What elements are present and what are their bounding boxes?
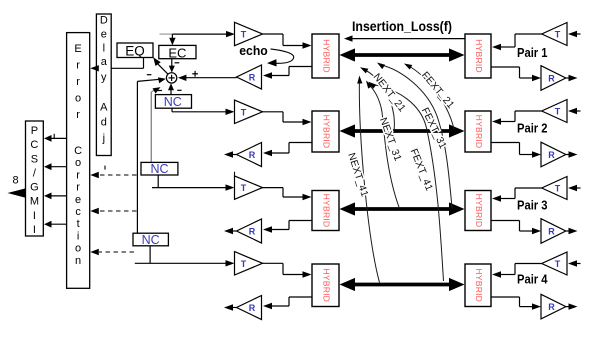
curve NEXT_41 bbox=[357, 76, 379, 283]
block PCS/GMII bbox=[26, 121, 44, 236]
svg-text:HYBRID: HYBRID bbox=[474, 268, 484, 302]
svg-text:r: r bbox=[76, 60, 80, 72]
svg-text:T: T bbox=[555, 259, 561, 269]
wire hybrid left to R1 bbox=[263, 67, 312, 79]
dashed wire NC2 to Error Correction bbox=[90, 166, 136, 179]
wire EQ output to Error Correction bbox=[96, 58, 144, 69]
svg-text:EC: EC bbox=[168, 45, 186, 60]
wire to T2 bbox=[172, 109, 235, 115]
block EQ bbox=[117, 43, 153, 59]
svg-text:T: T bbox=[555, 107, 561, 117]
minus sign NC1 right bbox=[177, 89, 181, 91]
curve FEXT_41 bbox=[369, 82, 444, 281]
svg-text:Pair 2: Pair 2 bbox=[517, 122, 548, 136]
svg-text:o: o bbox=[75, 157, 81, 169]
wire echo loop bbox=[267, 49, 294, 67]
svg-text:R: R bbox=[249, 150, 256, 160]
svg-text:HYBRID: HYBRID bbox=[322, 115, 332, 149]
wire T3 to hybrid left bbox=[263, 188, 312, 201]
svg-text:R: R bbox=[249, 73, 256, 83]
svg-text:Pair 1: Pair 1 bbox=[517, 46, 548, 60]
wire channel pair 4 (thick) bbox=[340, 278, 465, 291]
svg-text:C: C bbox=[30, 139, 38, 151]
svg-text:Pair 4: Pair 4 bbox=[517, 273, 548, 287]
label Insertion_Loss(f) bbox=[352, 19, 452, 34]
svg-text:R: R bbox=[548, 227, 555, 237]
wire hybrid right to R3 bbox=[491, 221, 541, 235]
minus sign NC1 left bbox=[158, 90, 162, 92]
label echo bbox=[239, 43, 268, 58]
svg-text:T: T bbox=[241, 30, 247, 40]
svg-text:T: T bbox=[555, 30, 561, 40]
svg-text:NC: NC bbox=[164, 95, 182, 109]
wire R2 output bbox=[224, 151, 237, 157]
wire summing junction to EQ bbox=[153, 57, 168, 74]
wire R2 right output bbox=[566, 151, 578, 157]
wire T2 right to hybrid bbox=[492, 111, 542, 125]
block Delay Adj bbox=[96, 14, 111, 156]
svg-text:r: r bbox=[76, 76, 80, 88]
wire ErrorCorrection to PCS 3 bbox=[44, 193, 67, 200]
wire R4 output bbox=[224, 304, 237, 310]
svg-text:HYBRID: HYBRID bbox=[322, 39, 332, 73]
block NC3 bbox=[133, 233, 168, 247]
label NEXT_31 bbox=[377, 116, 403, 163]
hybrid H2 right bbox=[465, 111, 491, 152]
wire line B to summing junction bbox=[151, 87, 160, 93]
wire T2 right input bbox=[568, 108, 581, 114]
svg-text:C: C bbox=[74, 145, 82, 157]
wire ErrorCorrection to PCS 1 bbox=[44, 134, 67, 142]
svg-text:Insertion_Loss(f): Insertion_Loss(f) bbox=[352, 19, 452, 34]
label FEXT_41 bbox=[408, 147, 435, 192]
wire T4 to hybrid left bbox=[263, 263, 312, 277]
wire T1 to hybrid left bbox=[263, 34, 312, 49]
svg-text:R: R bbox=[548, 302, 555, 312]
wire to T3 bbox=[152, 184, 235, 190]
wire NC1 tap bbox=[171, 108, 173, 112]
svg-text:j: j bbox=[102, 133, 105, 145]
amplifier T1 (right) bbox=[542, 23, 567, 46]
wire R1 right output bbox=[566, 75, 578, 81]
wire hybrid right to R1 bbox=[491, 67, 541, 81]
hybrid H1 right bbox=[465, 34, 491, 78]
svg-text:HYBRID: HYBRID bbox=[322, 268, 332, 302]
wire hybrid right to R2 bbox=[491, 143, 541, 158]
svg-text:n: n bbox=[75, 255, 81, 267]
label Pair 4 bbox=[517, 273, 548, 287]
dashed wire NC3 to Error Correction bbox=[90, 249, 134, 255]
svg-text:R: R bbox=[249, 227, 256, 237]
svg-text:T: T bbox=[555, 184, 561, 194]
amplifier T2 (left) bbox=[235, 100, 263, 123]
wire channel pair 3 (thick) bbox=[340, 202, 465, 215]
svg-text:R: R bbox=[249, 303, 256, 313]
svg-text:D: D bbox=[100, 14, 108, 26]
wire T1 right to hybrid bbox=[492, 34, 542, 50]
wire hybrid left to R3 bbox=[263, 221, 312, 233]
svg-text:NC: NC bbox=[150, 162, 168, 176]
amplifier T3 (left) bbox=[235, 176, 263, 199]
svg-text:EQ: EQ bbox=[125, 44, 145, 59]
curve NEXT_31 bbox=[366, 81, 400, 209]
svg-text:R: R bbox=[548, 74, 555, 84]
svg-text:o: o bbox=[75, 93, 81, 105]
svg-text:o: o bbox=[75, 243, 81, 255]
dashed wire to Error Correction 2 bbox=[90, 208, 136, 214]
svg-text:r: r bbox=[76, 182, 80, 194]
svg-text:t: t bbox=[77, 218, 80, 230]
amplifier R4 (left) bbox=[237, 296, 262, 320]
wire hybrid left to R2 bbox=[263, 143, 312, 157]
curve FEXT_31 bbox=[377, 63, 452, 209]
svg-text:y: y bbox=[101, 72, 107, 84]
svg-text:HYBRID: HYBRID bbox=[474, 194, 484, 228]
wire hybrid right to R4 bbox=[491, 297, 541, 310]
svg-text:E: E bbox=[74, 43, 81, 55]
wire NC3 tap bbox=[149, 246, 151, 263]
curve NEXT_21 bbox=[360, 67, 394, 130]
wire insertion loss bbox=[344, 35, 465, 41]
amplifier R4 (right) bbox=[541, 294, 566, 319]
svg-text:i: i bbox=[77, 230, 79, 242]
hybrid H4 right bbox=[465, 264, 491, 307]
wire R3 right output bbox=[566, 228, 578, 234]
svg-text:G: G bbox=[30, 182, 39, 194]
svg-text:8: 8 bbox=[12, 175, 18, 187]
hybrid H3 left bbox=[312, 191, 339, 231]
hybrid H4 left bbox=[312, 264, 339, 307]
wire T4 right input bbox=[568, 260, 581, 266]
label FEXT_21 bbox=[419, 70, 456, 111]
label NEXT_21 bbox=[371, 72, 408, 115]
svg-text:R: R bbox=[548, 150, 555, 160]
amplifier R3 (right) bbox=[541, 219, 566, 244]
amplifier T2 (right) bbox=[542, 100, 567, 123]
svg-text:HYBRID: HYBRID bbox=[474, 39, 484, 73]
minus sign line A bbox=[147, 74, 152, 76]
label 8 bbox=[12, 175, 18, 187]
amplifier T4 (right) bbox=[542, 252, 567, 275]
svg-text:Pair 3: Pair 3 bbox=[517, 198, 548, 212]
svg-text:r: r bbox=[76, 109, 80, 121]
block NC2 bbox=[141, 162, 178, 176]
label Pair 1 bbox=[517, 46, 548, 60]
bus arrow 8-bit GMII bbox=[8, 188, 27, 198]
wire ErrorCorrection to PCS 4 bbox=[44, 221, 67, 228]
curve FEXT_21 bbox=[404, 64, 454, 130]
wire T3 right to hybrid bbox=[492, 188, 542, 202]
plus sign R1 input bbox=[192, 71, 198, 77]
hybrid H2 left bbox=[312, 111, 339, 152]
amplifier R2 (right) bbox=[541, 142, 566, 167]
svg-text:NC: NC bbox=[142, 233, 160, 247]
hybrid H1 left bbox=[312, 34, 339, 78]
block NC1 bbox=[155, 95, 191, 109]
svg-text:l: l bbox=[103, 42, 105, 54]
svg-text:r: r bbox=[76, 169, 80, 181]
amplifier T4 (left) bbox=[235, 252, 263, 275]
svg-text:M: M bbox=[30, 196, 39, 208]
wire T2 to hybrid left bbox=[263, 112, 312, 125]
svg-text:I: I bbox=[33, 224, 36, 236]
svg-text:c: c bbox=[75, 206, 81, 218]
wire to T4 bbox=[135, 260, 235, 266]
wire hybrid left to R4 bbox=[263, 297, 312, 309]
wire R4 right output bbox=[566, 303, 578, 309]
wire channel pair 1 (thick) bbox=[340, 48, 465, 61]
wire line B vertical bbox=[150, 92, 152, 162]
svg-text:d: d bbox=[101, 117, 107, 129]
svg-text:T: T bbox=[241, 259, 247, 269]
block EC echo canceller bbox=[159, 45, 196, 60]
svg-text:e: e bbox=[75, 194, 81, 206]
block Error Correction bbox=[67, 33, 90, 289]
wire top to T1 and EC bbox=[160, 31, 236, 37]
svg-text:e: e bbox=[101, 29, 107, 41]
label Pair 2 bbox=[517, 122, 548, 136]
wire line A to summing junction bbox=[137, 77, 166, 83]
svg-text:P: P bbox=[31, 125, 38, 137]
svg-text:T: T bbox=[241, 183, 247, 193]
label NEXT_41 bbox=[345, 152, 370, 199]
wire T3 right input bbox=[568, 185, 581, 191]
wire ErrorCorrection to PCS 2 bbox=[44, 163, 67, 170]
amplifier R2 (left) bbox=[237, 143, 262, 167]
svg-text:echo: echo bbox=[239, 43, 268, 58]
wire line A vertical bbox=[136, 81, 138, 233]
wire T1 right input bbox=[568, 31, 581, 37]
svg-text:T: T bbox=[241, 107, 247, 117]
amplifier R1 (right) bbox=[541, 66, 566, 91]
svg-text:I: I bbox=[33, 210, 36, 222]
wire T4 right to hybrid bbox=[492, 264, 542, 278]
svg-text:A: A bbox=[100, 102, 108, 114]
label Pair 3 bbox=[517, 198, 548, 212]
hybrid H3 right bbox=[465, 191, 491, 231]
svg-text:HYBRID: HYBRID bbox=[322, 194, 332, 228]
wire NC2 tap bbox=[157, 175, 159, 188]
wire channel pair 2 (thick) bbox=[340, 124, 465, 137]
amplifier T1 (left) bbox=[235, 22, 263, 45]
amplifier T3 (right) bbox=[542, 177, 567, 200]
svg-text:a: a bbox=[101, 56, 108, 68]
svg-text:S: S bbox=[31, 153, 38, 165]
minus sign EC input bbox=[175, 62, 180, 64]
summing junction bbox=[166, 73, 176, 83]
amplifier R1 (left) bbox=[237, 65, 262, 89]
wire R3 output bbox=[224, 228, 237, 234]
wire down into EC bbox=[169, 34, 175, 45]
wire NC1 to summing junction bbox=[168, 83, 174, 94]
wire R1 to summing junction bbox=[178, 75, 237, 81]
wire EC to summing junction bbox=[169, 59, 175, 73]
amplifier R3 (left) bbox=[237, 219, 262, 243]
label FEXT_31 bbox=[419, 106, 448, 151]
arrowhead into Error Correction from EQ bbox=[90, 65, 99, 71]
tick mark R2 bbox=[234, 172, 236, 176]
svg-text:HYBRID: HYBRID bbox=[474, 115, 484, 149]
